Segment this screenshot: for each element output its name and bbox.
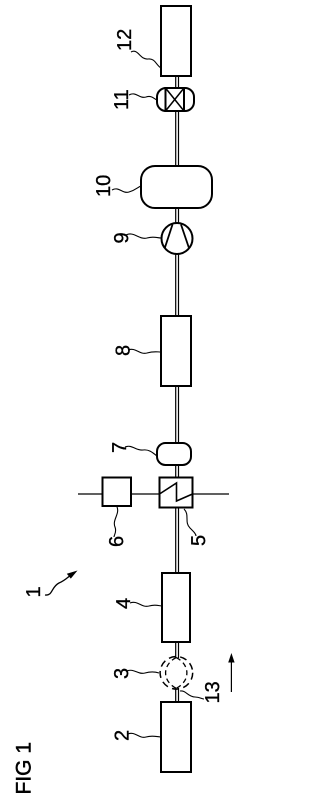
- wire pipe 5-4: [176, 507, 179, 573]
- tank 10: [141, 166, 212, 208]
- reactor 8: [161, 316, 191, 386]
- label 9: [111, 232, 161, 243]
- svg-text:2: 2: [112, 730, 134, 741]
- svg-text:13: 13: [202, 681, 224, 703]
- wire pipe 9-8: [176, 254, 179, 316]
- svg-text:5: 5: [188, 535, 210, 546]
- label 12: [114, 29, 161, 68]
- reactor 4: [162, 573, 190, 642]
- label 7: [109, 442, 157, 456]
- valve 11: [157, 88, 194, 111]
- svg-text:10: 10: [93, 175, 115, 197]
- flow arrow 13: [228, 653, 234, 692]
- label 2: [112, 730, 162, 741]
- svg-text:FIG 1: FIG 1: [13, 742, 36, 795]
- svg-text:6: 6: [106, 536, 128, 547]
- label 6: [106, 507, 128, 547]
- svg-text:12: 12: [114, 29, 136, 51]
- vessel 12: [161, 6, 191, 76]
- pump 9: [162, 223, 193, 254]
- heat exchanger 5: [160, 478, 193, 508]
- wire pipe 11-10: [176, 111, 179, 166]
- wire pipe 8-7: [176, 386, 179, 443]
- label 4: [113, 598, 162, 609]
- svg-text:8: 8: [113, 345, 135, 356]
- wire line 6-5: [131, 493, 159, 495]
- svg-text:4: 4: [113, 598, 135, 609]
- label 13: [180, 681, 224, 703]
- wire line left of 6: [78, 493, 102, 495]
- box 6: [103, 478, 132, 507]
- label 3: [111, 668, 159, 679]
- wire pipe 3-2: [176, 688, 179, 702]
- label 10: [93, 175, 141, 197]
- svg-text:11: 11: [111, 89, 133, 110]
- wire pipe 12-11: [176, 76, 179, 88]
- svg-text:1: 1: [23, 586, 45, 597]
- label 8: [113, 345, 162, 356]
- vessel 2: [161, 702, 191, 772]
- wire line right of 5: [193, 493, 229, 495]
- svg-text:7: 7: [109, 442, 131, 453]
- svg-text:3: 3: [111, 668, 133, 679]
- vessel 7: [157, 443, 191, 465]
- arrow label 1: [23, 571, 78, 598]
- nozzle 3: [160, 657, 193, 690]
- label 5: [184, 509, 210, 546]
- label 11: [111, 89, 157, 110]
- wire pipe 10-9: [176, 208, 179, 224]
- wire pipe 4-3: [176, 642, 179, 658]
- wire pipe 7-5: [176, 465, 179, 478]
